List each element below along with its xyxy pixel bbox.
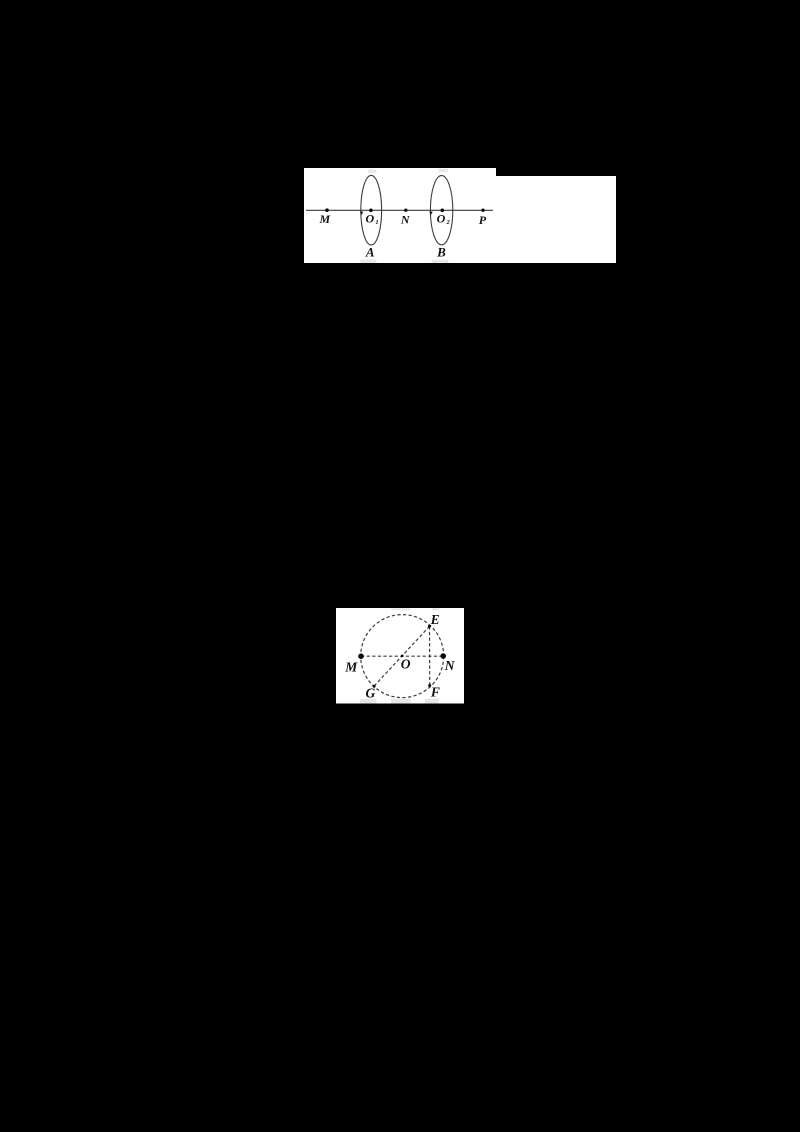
point N (fig2) [440, 653, 446, 659]
point G [373, 685, 376, 688]
gray patch above lens A [368, 170, 377, 173]
arrowhead at lens B axis crossing [429, 211, 432, 215]
svg-text:F: F [430, 684, 440, 699]
svg-text:G: G [366, 686, 376, 701]
lens A ellipse [361, 175, 382, 245]
svg-text:N: N [444, 658, 456, 673]
svg-text:A: A [365, 245, 375, 260]
svg-text:M: M [344, 660, 358, 675]
arrowhead at lens A axis crossing [360, 211, 363, 215]
point M (fig2) [358, 653, 364, 659]
lens B ellipse [430, 176, 452, 245]
gray patch bottom center (fig2) [391, 699, 411, 704]
dashed circle centered at O [361, 615, 444, 698]
svg-text:N: N [400, 213, 411, 227]
dashed diameter M-N [361, 655, 443, 657]
svg-text:M: M [318, 212, 330, 226]
gray patch above lens B [439, 169, 448, 173]
point O center [401, 655, 404, 658]
point P [481, 209, 484, 212]
svg-text:E: E [430, 612, 440, 627]
point F [428, 684, 431, 687]
point E [428, 625, 431, 628]
gray patch bottom left (fig2) [360, 699, 377, 704]
point O2 [441, 209, 445, 213]
svg-text:O: O [437, 211, 446, 225]
gray patch bottom right (fig2) [425, 699, 439, 704]
dashed chord E-F [429, 626, 431, 685]
svg-text:O: O [365, 212, 374, 226]
svg-text:B: B [436, 245, 446, 260]
point N (fig1) [404, 209, 407, 212]
svg-text:P: P [479, 213, 487, 227]
svg-text:1: 1 [375, 219, 378, 226]
dashed diameter G-E [374, 626, 429, 686]
gray patch below lens B [432, 260, 448, 263]
gray patch top center (fig2) [391, 608, 411, 611]
gray patch below lens A [360, 259, 376, 263]
svg-text:O: O [401, 656, 411, 671]
optical axis line [306, 209, 493, 211]
figure 1 white panel (right part, lower top edge) [496, 176, 616, 263]
point M (fig1) [325, 208, 329, 212]
figure 1 white panel (left part) [304, 168, 496, 263]
figure 2 white panel [336, 608, 464, 704]
gray patch top right (fig2) [432, 608, 439, 611]
point O1 [369, 209, 373, 213]
